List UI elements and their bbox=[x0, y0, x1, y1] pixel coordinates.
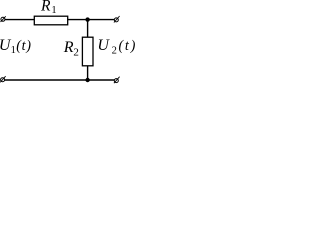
svg-text:U1(t): U1(t) bbox=[0, 37, 32, 56]
node junction bottom bbox=[85, 78, 89, 82]
wire top-right bbox=[68, 19, 115, 21]
node junction top bbox=[85, 17, 89, 21]
resistor R2 bbox=[82, 37, 93, 66]
terminal top-left bbox=[1, 16, 6, 22]
terminal top-right bbox=[114, 16, 120, 23]
wire bottom rail bbox=[4, 79, 114, 81]
wire vertical bottom (R2 to bottom rail) bbox=[87, 66, 89, 80]
wire top-left bbox=[5, 19, 35, 21]
terminal bottom-right bbox=[114, 77, 120, 84]
wire vertical top (junction to R2) bbox=[87, 20, 89, 38]
resistor R1 bbox=[34, 16, 67, 25]
terminal bottom-left bbox=[0, 76, 5, 82]
